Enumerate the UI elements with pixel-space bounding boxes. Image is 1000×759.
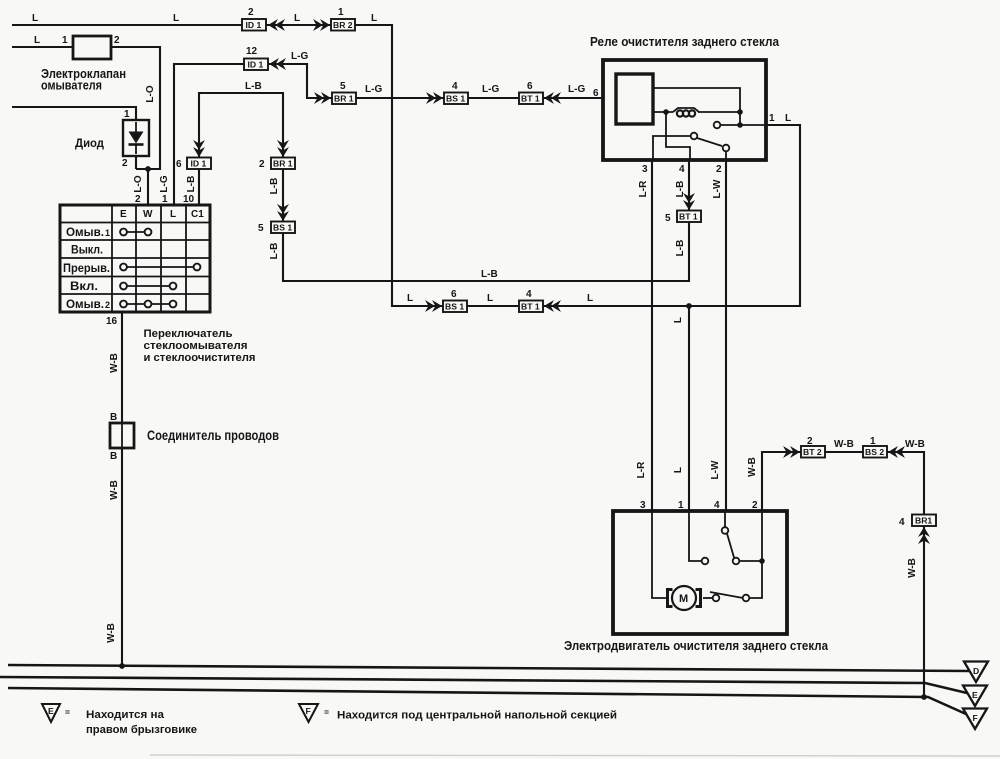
- wire ground bus line 1: [8, 665, 970, 671]
- svg-text:L-B: L-B: [269, 178, 280, 195]
- svg-text:5: 5: [340, 81, 346, 92]
- labels near motor pins: [636, 457, 758, 511]
- svg-text:ID 1: ID 1: [191, 159, 207, 169]
- svg-text:BT 1: BT 1: [679, 212, 698, 222]
- node junction diode/L-O/switch: [145, 166, 151, 172]
- connector ID1 pin 12: [244, 59, 268, 71]
- svg-text:L-B: L-B: [675, 240, 686, 257]
- wire motor brush to switch: [703, 597, 712, 599]
- svg-text:L-G: L-G: [482, 84, 499, 95]
- svg-text:E: E: [972, 690, 978, 700]
- connector BT2 pin 2: [801, 446, 825, 458]
- wire L-R relay pin 3 to motor pin 3: [651, 160, 653, 511]
- arrows into BR1-2: [277, 140, 289, 157]
- svg-text:L-G: L-G: [159, 175, 170, 192]
- arrows into ID1-12: [269, 58, 286, 70]
- svg-text:1: 1: [162, 194, 168, 205]
- svg-text:6: 6: [527, 81, 533, 92]
- labels on L-G row: [246, 46, 585, 95]
- labels left L-B chain: [176, 159, 280, 259]
- svg-text:2: 2: [248, 7, 254, 18]
- svg-text:L-B: L-B: [186, 176, 197, 193]
- svg-text:E: E: [48, 706, 54, 716]
- svg-text:5: 5: [258, 223, 264, 234]
- svg-text:16: 16: [106, 316, 118, 327]
- svg-text:L-O: L-O: [145, 85, 156, 102]
- switch contact row Омыв.2: [120, 301, 176, 308]
- svg-text:W-B: W-B: [109, 353, 120, 373]
- svg-text:4: 4: [526, 289, 532, 300]
- svg-text:4: 4: [452, 81, 458, 92]
- arrows into BS1-4: [426, 92, 443, 104]
- arrows into BT1-6: [544, 92, 561, 104]
- svg-text:2: 2: [135, 194, 141, 205]
- arrows into BR1-5: [314, 92, 331, 104]
- svg-text:L-G: L-G: [365, 84, 382, 95]
- wire L drop from node to motor pin 1: [688, 306, 690, 511]
- connector BT1 pin 6: [519, 93, 543, 105]
- svg-text:W-B: W-B: [905, 439, 925, 450]
- wire ground bus line 2: [0, 677, 967, 693]
- wire ground bus line 3: [8, 688, 966, 714]
- svg-text:2: 2: [122, 158, 128, 169]
- svg-text:L: L: [407, 293, 413, 304]
- arrows into BS2-1: [888, 446, 905, 458]
- svg-text:L: L: [587, 293, 593, 304]
- svg-text:E: E: [120, 209, 127, 220]
- relay coil K1: [673, 108, 699, 112]
- svg-text:L-B: L-B: [481, 269, 498, 280]
- svg-text:L-R: L-R: [636, 461, 647, 478]
- wire relay internal coil feed: [653, 112, 740, 125]
- svg-text:ID 1: ID 1: [246, 20, 262, 30]
- park contact left: [702, 558, 709, 565]
- svg-text:=: =: [324, 707, 329, 717]
- wire joint connector (Соединитель проводов): [110, 412, 279, 462]
- wire L-B BR1-2 down to BS1-5: [282, 169, 284, 222]
- svg-text:4: 4: [679, 164, 685, 175]
- connector BT1 pin 4: [519, 301, 543, 313]
- svg-text:B: B: [110, 412, 117, 423]
- svg-text:L: L: [673, 317, 684, 323]
- svg-text:1: 1: [62, 35, 68, 46]
- svg-text:L: L: [32, 13, 38, 24]
- svg-text:Реле очистителя заднего стекла: Реле очистителя заднего стекла: [590, 34, 780, 49]
- svg-text:F: F: [306, 706, 311, 716]
- ground symbol E right: [963, 686, 987, 707]
- svg-text:2: 2: [259, 159, 265, 170]
- svg-text:L: L: [173, 13, 179, 24]
- svg-text:Выкл.: Выкл.: [71, 243, 103, 257]
- svg-text:BT 1: BT 1: [521, 94, 540, 104]
- svg-text:BS 1: BS 1: [273, 223, 292, 233]
- wire W-B motor pin 2 up to BT2/BS2 row and down to bus: [762, 452, 924, 697]
- wire L-G from ID1-12 to switch pin 1: [174, 64, 246, 205]
- connector BR2 pin 1: [331, 19, 355, 31]
- wire motor pin1 internal: [689, 511, 701, 561]
- arrows into BS1-6: [425, 300, 442, 312]
- wire motor pin4 internal: [724, 511, 726, 527]
- wire diode cathode stub: [135, 156, 137, 169]
- svg-text:Прерыв.: Прерыв.: [63, 261, 110, 275]
- svg-text:M: M: [679, 593, 688, 605]
- run contact left: [713, 595, 720, 602]
- svg-text:1: 1: [124, 109, 130, 120]
- labels W-B row: [807, 436, 925, 450]
- svg-text:3: 3: [642, 164, 648, 175]
- connector BT1 pin 5: [677, 211, 701, 223]
- ground symbol D: [964, 662, 988, 683]
- wire top L row from left to corner down to L row, right to relay pin1 riser: [12, 25, 800, 306]
- labels L row: [407, 289, 593, 304]
- svg-text:12: 12: [246, 46, 258, 57]
- svg-text:10: 10: [183, 194, 195, 205]
- connector BS1 pin 4: [444, 93, 468, 105]
- wire W-B switch pin 16 down to ground bus: [121, 313, 123, 666]
- svg-text:Омыв.: Омыв.: [66, 297, 104, 311]
- svg-text:BR 1: BR 1: [273, 159, 293, 169]
- wire motor pin2 internal: [750, 511, 762, 598]
- svg-text:L-R: L-R: [638, 180, 649, 197]
- svg-text:4: 4: [899, 517, 905, 528]
- svg-text:=: =: [65, 707, 70, 717]
- park contact right: [733, 558, 740, 565]
- svg-text:6: 6: [593, 88, 599, 99]
- connector BS2 pin 1: [863, 446, 887, 458]
- svg-text:стеклоомывателя: стеклоомывателя: [144, 340, 248, 352]
- node coil left: [663, 109, 669, 115]
- connector BS1 pin 6: [443, 301, 467, 313]
- svg-text:ID 1: ID 1: [248, 60, 264, 70]
- svg-text:6: 6: [451, 289, 457, 300]
- svg-text:правом брызговике: правом брызговике: [86, 724, 197, 736]
- relay switch arm: [697, 138, 722, 146]
- node L row to motor pin1: [686, 303, 692, 309]
- svg-text:BR1: BR1: [915, 516, 932, 526]
- svg-text:W-B: W-B: [907, 558, 918, 578]
- arrows into BT2-2: [783, 446, 800, 458]
- legend F triangle: [299, 704, 617, 722]
- svg-text:L-O: L-O: [133, 175, 144, 192]
- motor park switch arm upper: [727, 534, 734, 558]
- decorative faint bottom rule: [150, 755, 1000, 756]
- svg-text:D: D: [973, 666, 979, 676]
- svg-text:1: 1: [105, 228, 110, 238]
- svg-text:L-G: L-G: [291, 51, 308, 62]
- svg-text:L: L: [34, 35, 40, 46]
- switch contact row Омыв.1: [120, 229, 151, 236]
- motor run switch arm: [710, 592, 743, 598]
- svg-text:BT 1: BT 1: [521, 302, 540, 312]
- arrows into BT1-4: [544, 300, 561, 312]
- wiper/washer switch S1 table box: [60, 205, 210, 312]
- wire relay pin3 internal: [653, 136, 690, 160]
- connector ID1 pin 6: [187, 158, 211, 170]
- svg-text:W-B: W-B: [747, 457, 758, 477]
- svg-text:Омыв.: Омыв.: [66, 225, 104, 239]
- svg-text:L: L: [170, 209, 176, 220]
- arrows into BT1-5: [683, 193, 695, 210]
- svg-text:Электродвигатель очистителя за: Электродвигатель очистителя заднего стек…: [564, 638, 829, 653]
- diode D1 (Диод): [75, 109, 149, 169]
- wire washer solenoid feed row 2 with L-O drop: [12, 47, 160, 169]
- wire L-W relay pin 2 to motor pin 4: [725, 160, 727, 511]
- svg-text:L: L: [487, 293, 493, 304]
- svg-text:L: L: [785, 113, 791, 124]
- motor armature M: [672, 586, 696, 610]
- arrows into BR2-1: [313, 19, 330, 31]
- svg-text:BT 2: BT 2: [803, 447, 822, 457]
- svg-text:L-W: L-W: [712, 179, 723, 198]
- wire relay pin2 internal: [725, 151, 727, 160]
- switch contact row Прерыв.: [120, 264, 200, 271]
- wire L-B top bridge to ID1-6: [199, 93, 283, 158]
- svg-text:омывателя: омывателя: [41, 78, 102, 93]
- svg-text:5: 5: [665, 213, 671, 224]
- connector BS1 pin 5: [271, 222, 295, 234]
- run contact right: [743, 595, 750, 602]
- relay contact B pivot: [691, 133, 698, 140]
- svg-text:W-B: W-B: [109, 480, 120, 500]
- wire diode anode feed row 3: [12, 107, 136, 120]
- wire L-B ID1-6 to switch pin 10: [198, 169, 200, 205]
- node pin1 line: [737, 122, 743, 128]
- svg-text:6: 6: [176, 159, 182, 170]
- svg-text:W-B: W-B: [834, 439, 854, 450]
- park contact top: [722, 527, 729, 534]
- relay U1 (Реле очистителя заднего стекла): [590, 34, 791, 198]
- wire relay internal top branch: [653, 88, 740, 112]
- wire park contact link: [739, 560, 762, 562]
- svg-text:W-B: W-B: [106, 623, 117, 643]
- node pin2/park: [759, 558, 765, 564]
- svg-text:2: 2: [105, 300, 110, 310]
- relay control unit inner box: [616, 74, 653, 124]
- svg-text:L-B: L-B: [269, 243, 280, 260]
- svg-text:2: 2: [114, 35, 120, 46]
- arrows into BS1-5: [277, 204, 289, 221]
- connector BR1 pin 5: [332, 93, 356, 105]
- svg-text:L-W: L-W: [710, 460, 721, 479]
- svg-text:BR 1: BR 1: [334, 94, 354, 104]
- svg-text:BS 2: BS 2: [865, 447, 884, 457]
- svg-text:1: 1: [338, 7, 344, 18]
- svg-text:BR 2: BR 2: [333, 20, 353, 30]
- svg-text:W: W: [143, 209, 153, 220]
- wire L-G row from ID1-12 right side to relay pin 6: [266, 64, 603, 98]
- motor M1 (Электродвигатель очистителя заднего стекла): [564, 511, 829, 653]
- switch contact row Вкл.: [120, 283, 176, 290]
- labels on top L row: [32, 7, 377, 24]
- connector BR1 pin 4: [912, 515, 936, 527]
- wire node junction to switch pin 2: [147, 169, 149, 205]
- labels switch pins top: [133, 175, 197, 205]
- svg-text:B: B: [110, 451, 117, 462]
- svg-text:Переключатель: Переключатель: [144, 328, 233, 340]
- wire relay pin1 internal: [720, 124, 766, 126]
- svg-text:Вкл.: Вкл.: [70, 279, 98, 293]
- wire motor pin3 internal: [652, 511, 666, 598]
- svg-text:BS 1: BS 1: [445, 302, 464, 312]
- svg-text:L-B: L-B: [245, 81, 262, 92]
- legend E triangle: [42, 704, 197, 736]
- node bus junction left: [119, 663, 125, 669]
- svg-text:BS 1: BS 1: [446, 94, 465, 104]
- svg-text:Диод: Диод: [75, 136, 104, 150]
- relay contact A: [714, 122, 721, 129]
- svg-text:Находится на: Находится на: [86, 709, 165, 721]
- node bus junction right: [921, 694, 927, 700]
- svg-text:и стеклоочистителя: и стеклоочистителя: [144, 352, 256, 364]
- arrows into ID1-2: [268, 19, 285, 31]
- svg-text:L-G: L-G: [568, 84, 585, 95]
- arrows into ID1-6: [193, 140, 205, 157]
- svg-text:L: L: [371, 13, 377, 24]
- wire L-B row from BS1-5 down and across to relay pin 4 riser: [283, 160, 689, 281]
- connector ID1 pin 2: [242, 19, 266, 31]
- electrovalve box (Электроклапан омывателя): [34, 35, 126, 93]
- svg-text:F: F: [973, 713, 978, 723]
- svg-text:1: 1: [769, 113, 775, 124]
- switch caption (Переключатель стеклоомывателя и стеклоочистителя): [144, 328, 256, 364]
- connector BR1 pin 2: [271, 158, 295, 170]
- node coil right: [737, 109, 743, 115]
- svg-text:Находится под центральной напо: Находится под центральной напольной секц…: [337, 710, 617, 722]
- arrows into BR1-4: [918, 527, 930, 544]
- svg-text:2: 2: [716, 164, 722, 175]
- svg-text:L: L: [673, 467, 684, 473]
- svg-text:C1: C1: [191, 209, 204, 220]
- relay contact C: [723, 145, 730, 152]
- svg-text:Соединитель проводов: Соединитель проводов: [147, 428, 279, 443]
- svg-text:L: L: [294, 13, 300, 24]
- ground symbol F right: [963, 709, 987, 730]
- wire relay pin4 internal: [666, 112, 690, 160]
